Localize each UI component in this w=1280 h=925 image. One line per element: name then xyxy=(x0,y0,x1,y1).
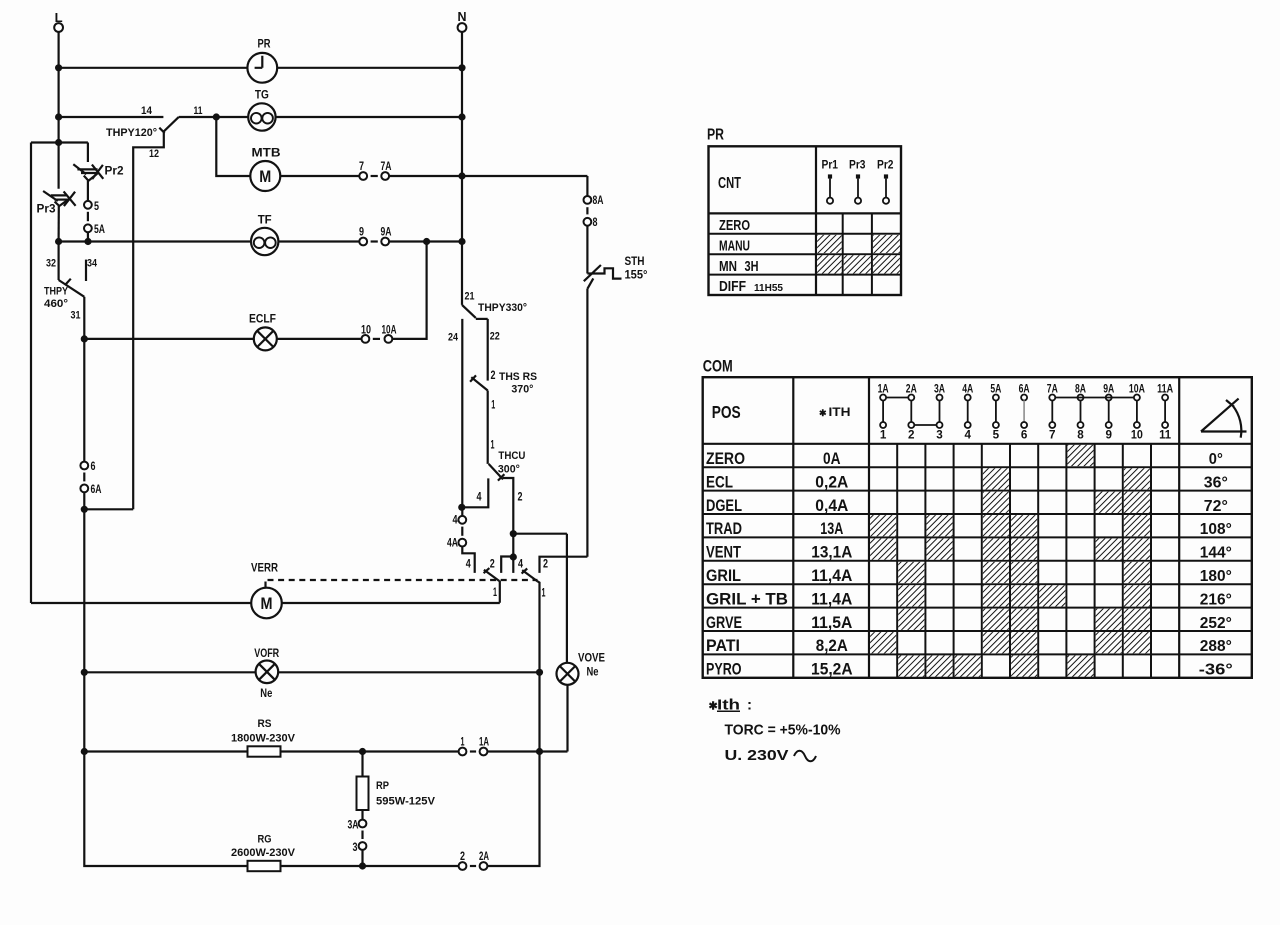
wire RS junction down to RP xyxy=(361,752,363,777)
svg-text:THPY120°: THPY120° xyxy=(106,127,157,139)
wire Pr2 to contact 5 xyxy=(87,181,89,201)
svg-text:PR: PR xyxy=(258,37,271,51)
wire contact 9A to N xyxy=(389,240,462,242)
svg-text:1: 1 xyxy=(880,428,887,442)
wire 24 line down to THCU junction xyxy=(461,319,463,507)
wire jog junction to 12-line xyxy=(84,508,133,510)
angle dial icon xyxy=(1201,399,1247,432)
wire ECLF junction down to contact 6 xyxy=(83,339,85,462)
svg-text:108°: 108° xyxy=(1200,521,1232,538)
wire ECLF to contact 10 xyxy=(277,338,362,340)
wire STH down to door-switch contact 2 xyxy=(586,289,588,557)
hatched cell MN3H/Pr2 xyxy=(873,255,900,273)
svg-text:300°: 300° xyxy=(498,463,520,475)
svg-text:TRAD: TRAD xyxy=(706,520,742,538)
svg-text:VERR: VERR xyxy=(251,561,278,575)
wire door-switch2 terminal 2 to STH line xyxy=(540,557,588,573)
wire door-switch1 pole to VERR wire xyxy=(498,581,501,603)
svg-text:11H55: 11H55 xyxy=(754,282,783,294)
svg-text:MN: MN xyxy=(719,258,737,275)
svg-text:8,2A: 8,2A xyxy=(816,637,848,655)
svg-text:-36°: -36° xyxy=(1199,662,1233,679)
thermal fuse STH 155° xyxy=(587,268,621,278)
svg-text:11,4A: 11,4A xyxy=(811,567,852,585)
contact pair 10 / 10A xyxy=(362,335,370,343)
wire VOFR to feed line xyxy=(278,671,539,673)
svg-text:2A: 2A xyxy=(906,382,917,396)
resistor RP 595W-125V xyxy=(357,777,369,811)
svg-text:370°: 370° xyxy=(511,384,533,396)
svg-text:ECLF: ECLF xyxy=(249,312,276,326)
svg-text:4A: 4A xyxy=(962,382,973,396)
junction feed / VOFR row xyxy=(536,669,543,676)
table PR outer border xyxy=(709,146,902,295)
wire branch 11 down to MTB xyxy=(216,117,250,176)
svg-text:11,5A: 11,5A xyxy=(811,614,852,632)
svg-text:0,2A: 0,2A xyxy=(815,473,848,491)
wire L rail upper (L terminal to Pr3) xyxy=(57,32,59,189)
lamp VOFR (neon) xyxy=(256,661,279,684)
contact pair 3A / 3 xyxy=(359,820,367,828)
cam link 7A-10A xyxy=(1055,397,1134,399)
svg-text:0°: 0° xyxy=(1209,451,1223,468)
svg-text:11: 11 xyxy=(1159,428,1171,442)
svg-text:7: 7 xyxy=(359,161,364,173)
junction 24-line / THCU-4 xyxy=(458,504,465,511)
table PR grid lines xyxy=(815,146,817,295)
svg-text:1: 1 xyxy=(491,440,495,452)
svg-text:9A: 9A xyxy=(381,227,392,239)
svg-text:VOFR: VOFR xyxy=(254,646,279,660)
junction L / PR row xyxy=(55,64,62,71)
svg-text:RS: RS xyxy=(258,718,272,730)
svg-text:M: M xyxy=(261,594,273,613)
svg-text:8: 8 xyxy=(1077,428,1084,442)
svg-text:0A: 0A xyxy=(823,450,841,468)
svg-text:Pr1: Pr1 xyxy=(822,158,839,172)
junction L / TF row xyxy=(55,238,62,245)
svg-text:4: 4 xyxy=(466,559,471,571)
wire left box vertical xyxy=(30,143,32,604)
junction RP branch / RS row xyxy=(359,748,366,755)
junction feed / RS row xyxy=(536,748,543,755)
svg-text:COM: COM xyxy=(703,357,733,376)
svg-text:Ith: Ith xyxy=(717,697,740,714)
svg-text:✱: ✱ xyxy=(819,408,827,418)
svg-text:1: 1 xyxy=(461,737,465,749)
wire L rail to THPY460 pivot xyxy=(57,242,59,281)
svg-text::: : xyxy=(747,697,752,714)
wire RS to contact 1 xyxy=(281,750,459,752)
svg-text:34: 34 xyxy=(87,258,98,270)
wire N rail (N terminal down to THPY330 pivot) xyxy=(461,32,463,305)
svg-text:155°: 155° xyxy=(625,268,648,282)
node L (line terminal) xyxy=(54,23,63,32)
svg-text:8: 8 xyxy=(593,217,598,229)
wire PR row right xyxy=(277,67,462,69)
svg-text:8A: 8A xyxy=(593,195,604,207)
junction THCU-2 / VOVE feed xyxy=(510,530,517,537)
wire PR row left xyxy=(59,67,248,69)
svg-text:31: 31 xyxy=(71,310,81,322)
switch THPY330° (21-22 / 24) xyxy=(462,305,476,318)
svg-text:4: 4 xyxy=(518,559,523,571)
svg-text:POS: POS xyxy=(712,402,741,422)
wire box top xyxy=(31,141,88,143)
svg-text:TF: TF xyxy=(258,213,272,227)
resistor RS 1800W-230V xyxy=(248,746,281,756)
svg-text:PYRO: PYRO xyxy=(706,661,742,679)
svg-text:VENT: VENT xyxy=(706,544,741,562)
svg-text:14: 14 xyxy=(141,105,153,117)
row TRAD: closed-cam hatched cells xyxy=(870,515,896,536)
svg-text:4: 4 xyxy=(964,428,971,442)
row GRIL + TB: closed-cam hatched cells xyxy=(898,585,924,606)
svg-text:ITH: ITH xyxy=(829,407,851,419)
svg-text:2: 2 xyxy=(490,559,495,571)
svg-text:GRIL + TB: GRIL + TB xyxy=(706,590,788,608)
wire VOFR row left xyxy=(84,671,255,673)
wire door-switch2 pole down to VOFR row xyxy=(538,582,540,673)
wire VOVE feed horizontal xyxy=(513,533,567,535)
svg-text:252°: 252° xyxy=(1200,615,1232,632)
row GRVE: closed-cam hatched cells xyxy=(898,609,924,630)
junction L / TG row xyxy=(55,113,62,120)
wire contact 8 to STH xyxy=(586,226,588,274)
row ECL: closed-cam hatched cells xyxy=(983,468,1009,489)
svg-text:TG: TG xyxy=(255,88,269,102)
wire junction to contact 4 xyxy=(461,507,463,516)
fan motor TF xyxy=(251,228,278,255)
cam link 2-3 xyxy=(914,424,936,426)
svg-text:M: M xyxy=(259,167,271,186)
junction N / MTB row xyxy=(458,172,465,179)
node N (neutral terminal) xyxy=(458,23,467,32)
switch THPY460° (32-31) xyxy=(59,280,85,297)
svg-text:22: 22 xyxy=(490,331,500,343)
wire contact 5A to TF row xyxy=(87,232,89,241)
svg-text:ZERO: ZERO xyxy=(706,450,745,468)
svg-text:1800W-230V: 1800W-230V xyxy=(231,733,296,745)
table COM main dividers xyxy=(792,377,794,678)
junction L / box top xyxy=(55,139,62,146)
svg-text:TORC = +5%-10%: TORC = +5%-10% xyxy=(725,722,841,739)
svg-text:Pr3: Pr3 xyxy=(849,158,866,172)
svg-text:Pr3: Pr3 xyxy=(37,202,56,216)
svg-text:180°: 180° xyxy=(1200,568,1232,585)
svg-text:21: 21 xyxy=(465,291,475,303)
wire Pr3 to TF row xyxy=(57,206,59,242)
svg-text:288°: 288° xyxy=(1200,638,1232,655)
wire RS row left xyxy=(84,750,247,752)
svg-text:0,4A: 0,4A xyxy=(815,497,848,515)
svg-text:1: 1 xyxy=(542,588,546,600)
svg-text:MANU: MANU xyxy=(719,237,750,254)
svg-text:3H: 3H xyxy=(745,258,759,275)
svg-text:4: 4 xyxy=(477,492,482,504)
wire THPY460 to ECLF row xyxy=(83,297,85,339)
svg-text:3: 3 xyxy=(936,428,943,442)
svg-text:9: 9 xyxy=(359,227,364,239)
junction TG/MTB branch xyxy=(213,113,220,120)
wire Pr2 drop xyxy=(87,143,89,163)
hatched cell MANU/Pr2 xyxy=(873,235,900,253)
svg-text:36°: 36° xyxy=(1204,474,1228,491)
svg-text:9: 9 xyxy=(1105,428,1112,442)
svg-text:6: 6 xyxy=(91,461,96,473)
svg-text:2: 2 xyxy=(518,492,523,504)
svg-text:12: 12 xyxy=(149,148,159,160)
timer PR xyxy=(247,53,277,83)
wire contact 3 to RG row xyxy=(361,850,363,866)
svg-text:5A: 5A xyxy=(990,382,1001,396)
svg-text:7A: 7A xyxy=(1047,382,1058,396)
svg-text:VOVE: VOVE xyxy=(578,651,605,665)
switch THPY120° (contact 14-11, pivot 12) xyxy=(164,117,179,131)
lamp VOVE (neon) xyxy=(557,663,579,685)
svg-text:4A: 4A xyxy=(447,538,458,550)
svg-text:2: 2 xyxy=(491,370,496,382)
svg-text:24: 24 xyxy=(448,332,459,344)
contact pair 2 / 2A xyxy=(459,862,467,870)
svg-text:7: 7 xyxy=(1049,428,1056,442)
wire RG to contact 2 xyxy=(281,865,459,867)
wire THS RS contact 1 down to THCU contact 1 xyxy=(487,391,489,464)
wire MTB to contact 7 xyxy=(280,175,359,177)
svg-text:13A: 13A xyxy=(820,520,843,538)
svg-text:Ne: Ne xyxy=(587,665,599,679)
table COM row lines xyxy=(703,466,1252,468)
contact pair 9 / 9A xyxy=(359,238,367,246)
junction Pr2 branch / TF row xyxy=(84,238,91,245)
svg-text:L: L xyxy=(55,10,63,25)
svg-text:THPY330°: THPY330° xyxy=(478,302,527,314)
svg-text:6A: 6A xyxy=(91,484,102,496)
svg-text:3A: 3A xyxy=(348,820,359,832)
mechanical linkage VERR (dashed) xyxy=(268,579,538,581)
wire contact 11 to TG xyxy=(179,116,248,118)
svg-text:11A: 11A xyxy=(1157,382,1173,396)
wire VERR to door-switch1 xyxy=(282,602,500,604)
svg-text:DGEL: DGEL xyxy=(706,497,742,515)
row ZERO: closed-cam hatched cells xyxy=(1068,445,1094,466)
wire contact 4A jog to door-switch1 terminal 4 xyxy=(462,547,474,573)
thermostat THCU 300° xyxy=(489,464,503,480)
svg-text:13,1A: 13,1A xyxy=(811,544,852,562)
junction N / TG row xyxy=(458,113,465,120)
hatched cell MANU/Pr1 xyxy=(817,235,842,253)
svg-text:3A: 3A xyxy=(934,382,945,396)
junction branch / RS row xyxy=(81,748,88,755)
row GRIL: closed-cam hatched cells xyxy=(898,562,924,583)
svg-text:2A: 2A xyxy=(479,851,489,863)
svg-text:9A: 9A xyxy=(1103,382,1114,396)
svg-text:GRVE: GRVE xyxy=(706,614,742,632)
wire contact 6A down to jog junction xyxy=(83,492,85,672)
wire TF to contact 9 xyxy=(278,240,359,242)
svg-text:72°: 72° xyxy=(1204,498,1228,515)
wire TG to N xyxy=(276,116,462,118)
row PATI: closed-cam hatched cells xyxy=(870,632,896,653)
svg-text:5: 5 xyxy=(94,201,99,213)
hatched cell MN3H/Pr1 xyxy=(817,255,842,273)
svg-text:RG: RG xyxy=(258,834,272,846)
wire contact 1A to feed xyxy=(487,750,567,752)
svg-text:2: 2 xyxy=(543,559,548,571)
svg-text:GRIL: GRIL xyxy=(706,567,741,585)
svg-text:216°: 216° xyxy=(1200,591,1232,608)
wire RP to contact 3A xyxy=(361,810,363,820)
svg-text:144°: 144° xyxy=(1200,545,1232,562)
hatched cell MN3H/Pr3 xyxy=(844,255,871,273)
wire contact 10A right and riser to TF row xyxy=(392,242,426,339)
wire door-switch1 terminal 2 stub xyxy=(501,557,513,573)
contact pair 8A / 8 xyxy=(584,196,592,204)
svg-text:1: 1 xyxy=(491,400,495,412)
junction branch / VOFR row xyxy=(81,669,88,676)
svg-text:10: 10 xyxy=(361,325,371,337)
lamp ECLF xyxy=(254,327,277,350)
svg-text:7A: 7A xyxy=(381,161,392,173)
wire MTB row extension to STH branch xyxy=(462,175,587,177)
svg-text:MTB: MTB xyxy=(252,146,281,160)
svg-text:5: 5 xyxy=(993,428,1000,442)
svg-text:2: 2 xyxy=(460,851,465,863)
wire feed line down to RS row xyxy=(538,672,540,751)
row VENT: closed-cam hatched cells xyxy=(870,539,896,560)
svg-text:1: 1 xyxy=(493,587,497,599)
svg-text:PATI: PATI xyxy=(706,637,740,655)
wire branch down to RG row xyxy=(84,672,247,866)
contact pair 4 / 4A xyxy=(458,516,466,524)
wire THCU throw 4 to 24-line junction xyxy=(462,478,489,507)
svg-text:U. 230V: U. 230V xyxy=(725,747,789,764)
door switch 1 (VERR) arm xyxy=(484,570,499,581)
svg-text:STH: STH xyxy=(625,254,645,268)
wire contact 2A to feed riser xyxy=(487,752,539,867)
wire TF row left xyxy=(59,240,251,242)
door contact Pr2 xyxy=(73,164,86,174)
svg-text:2: 2 xyxy=(908,428,915,442)
contact 34 stub xyxy=(85,260,87,281)
svg-text:5A: 5A xyxy=(94,224,105,236)
svg-text:11,4A: 11,4A xyxy=(811,590,852,608)
contact pair 7 / 7A xyxy=(359,172,367,180)
svg-text:PR: PR xyxy=(707,127,724,144)
svg-text:Pr2: Pr2 xyxy=(877,158,894,172)
svg-text:ECL: ECL xyxy=(706,473,733,491)
svg-text:Pr2: Pr2 xyxy=(105,163,124,177)
contact pair 6 / 6A xyxy=(80,462,88,470)
cam link 1A-2A xyxy=(886,397,908,399)
svg-text:Ne: Ne xyxy=(260,686,272,700)
svg-text:ZERO: ZERO xyxy=(719,217,750,234)
contact pair 5 / 5A xyxy=(84,201,92,209)
svg-text:THS RS: THS RS xyxy=(499,371,537,383)
junction RP / RG row xyxy=(359,862,366,869)
svg-text:3: 3 xyxy=(353,842,358,854)
fan motor TG xyxy=(248,103,275,130)
table COM outer border xyxy=(703,377,1252,678)
wire TG row from L to contact 14 xyxy=(59,116,164,118)
wire THCU throw 2 xyxy=(503,478,513,534)
svg-text:1A: 1A xyxy=(878,382,889,396)
svg-text:2600W-230V: 2600W-230V xyxy=(231,847,296,859)
row DGEL: closed-cam hatched cells xyxy=(983,492,1009,513)
wire down to contact 8A xyxy=(586,176,588,196)
svg-text:6A: 6A xyxy=(1019,382,1030,396)
svg-text:595W-125V: 595W-125V xyxy=(376,796,436,808)
junction THPY460 / ECLF row xyxy=(81,335,88,342)
svg-text:11: 11 xyxy=(194,105,203,117)
junction jog / branch xyxy=(81,506,88,513)
svg-text:CNT: CNT xyxy=(718,175,741,192)
svg-text:THCU: THCU xyxy=(498,450,525,462)
svg-text:460°: 460° xyxy=(44,298,68,310)
svg-text:THPY: THPY xyxy=(44,286,69,298)
svg-text:6: 6 xyxy=(1021,428,1028,442)
door contact Pr3 xyxy=(43,191,58,201)
junction N / PR row xyxy=(458,64,465,71)
contact pair 1 / 1A xyxy=(459,748,467,756)
svg-text:DIFF: DIFF xyxy=(719,278,746,295)
wire contact 7A to N xyxy=(389,175,462,177)
svg-text:RP: RP xyxy=(376,780,389,792)
wire VERR row left xyxy=(31,602,251,604)
wire ECLF row left xyxy=(84,338,254,340)
wire from THPY120 pivot 12 down-jog to lower junction xyxy=(133,131,164,509)
svg-text:1A: 1A xyxy=(479,737,489,749)
junction door-switch stubs xyxy=(510,553,517,560)
resistor RG 2600W-230V xyxy=(248,861,281,871)
junction ECLF riser / TF row xyxy=(423,238,430,245)
thermostat THS RS 370° xyxy=(471,377,487,390)
svg-text:4: 4 xyxy=(453,515,458,527)
svg-text:8A: 8A xyxy=(1075,382,1086,396)
svg-text:10A: 10A xyxy=(1129,382,1145,396)
junction N / TF row xyxy=(458,238,465,245)
row PYRO: closed-cam hatched cells xyxy=(898,656,924,677)
door switch 2 (VOVE) arm xyxy=(522,570,538,582)
wire 22 down to THS RS contact 2 xyxy=(487,319,489,381)
motor VERR xyxy=(251,588,282,619)
wire VOVE feed vertical xyxy=(566,534,568,663)
svg-text:32: 32 xyxy=(46,258,56,270)
wire VOVE down to RS row xyxy=(566,685,568,752)
wire THCU-2 junction down to switch stubs xyxy=(512,534,514,573)
table COM cam-column lines xyxy=(896,444,898,678)
svg-text:10A: 10A xyxy=(382,325,397,337)
svg-text:15,2A: 15,2A xyxy=(811,661,853,679)
svg-text:N: N xyxy=(458,9,467,24)
svg-text:10: 10 xyxy=(1131,428,1143,442)
motor MTB xyxy=(250,161,280,191)
